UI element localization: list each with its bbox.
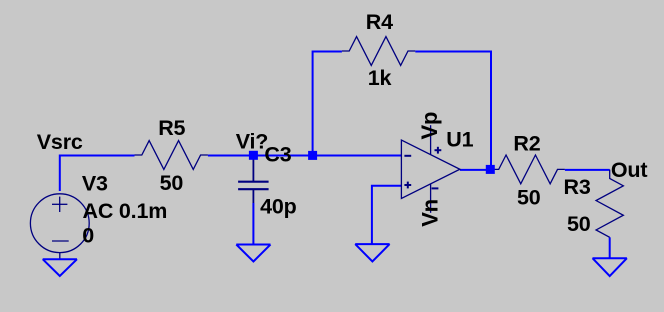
wire R5 to opamp In- bbox=[208, 155, 402, 157]
node output junction bbox=[486, 165, 495, 174]
svg-text:R4: R4 bbox=[366, 10, 393, 34]
svg-text:R3: R3 bbox=[564, 175, 591, 199]
ground G3 (opamp In+) bbox=[355, 244, 389, 261]
pin Vp stub bbox=[430, 125, 432, 154]
svg-text:1k: 1k bbox=[368, 66, 392, 90]
ground G2 (C3) bbox=[236, 245, 270, 262]
resistor R4 bbox=[342, 37, 415, 66]
svg-text:Vsrc: Vsrc bbox=[37, 130, 83, 154]
svg-text:Vp: Vp bbox=[417, 112, 442, 140]
resistor R5 bbox=[135, 141, 208, 170]
svg-text:U1: U1 bbox=[446, 127, 473, 151]
node feedback junction bbox=[308, 151, 317, 160]
wire Vsrc horizontal bbox=[60, 156, 135, 192]
capacitor C3 bbox=[238, 158, 269, 203]
V- mark bbox=[432, 187, 439, 189]
node Vi junction bbox=[249, 151, 258, 160]
svg-text:V3: V3 bbox=[82, 172, 108, 196]
svg-text:R5: R5 bbox=[158, 116, 185, 140]
op-amp U1 bbox=[401, 125, 460, 213]
wire opamp out to R2 bbox=[460, 169, 492, 171]
wire R2 to Out bbox=[565, 169, 610, 171]
In- mark bbox=[404, 155, 411, 157]
wire feedback right bbox=[415, 52, 491, 170]
svg-text:50: 50 bbox=[517, 185, 541, 209]
voltage source V3 bbox=[30, 194, 89, 259]
ground G1 (V3) bbox=[43, 259, 77, 276]
wire opamp In+ to ground bbox=[372, 186, 402, 244]
wire R3 bottom to ground bbox=[609, 237, 611, 258]
wire C3 bottom to ground bbox=[252, 203, 254, 245]
svg-text:Vn: Vn bbox=[417, 199, 442, 227]
ground G4 (R3) bbox=[593, 258, 627, 276]
svg-text:40p: 40p bbox=[260, 194, 297, 218]
svg-text:Vi?: Vi? bbox=[236, 129, 268, 153]
svg-text:C3: C3 bbox=[264, 142, 291, 166]
svg-text:0: 0 bbox=[82, 223, 94, 247]
resistor R3 bbox=[596, 170, 623, 238]
pin Vn stub bbox=[430, 184, 432, 213]
V+ mark bbox=[435, 149, 442, 151]
svg-text:50: 50 bbox=[160, 171, 184, 195]
svg-text:50: 50 bbox=[567, 212, 591, 236]
svg-text:Out: Out bbox=[611, 158, 647, 182]
In+ mark bbox=[404, 184, 411, 186]
svg-text:R2: R2 bbox=[513, 132, 540, 156]
resistor R2 bbox=[492, 155, 565, 184]
svg-text:AC 0.1m: AC 0.1m bbox=[83, 199, 168, 223]
wire feedback left vertical bbox=[313, 52, 342, 156]
